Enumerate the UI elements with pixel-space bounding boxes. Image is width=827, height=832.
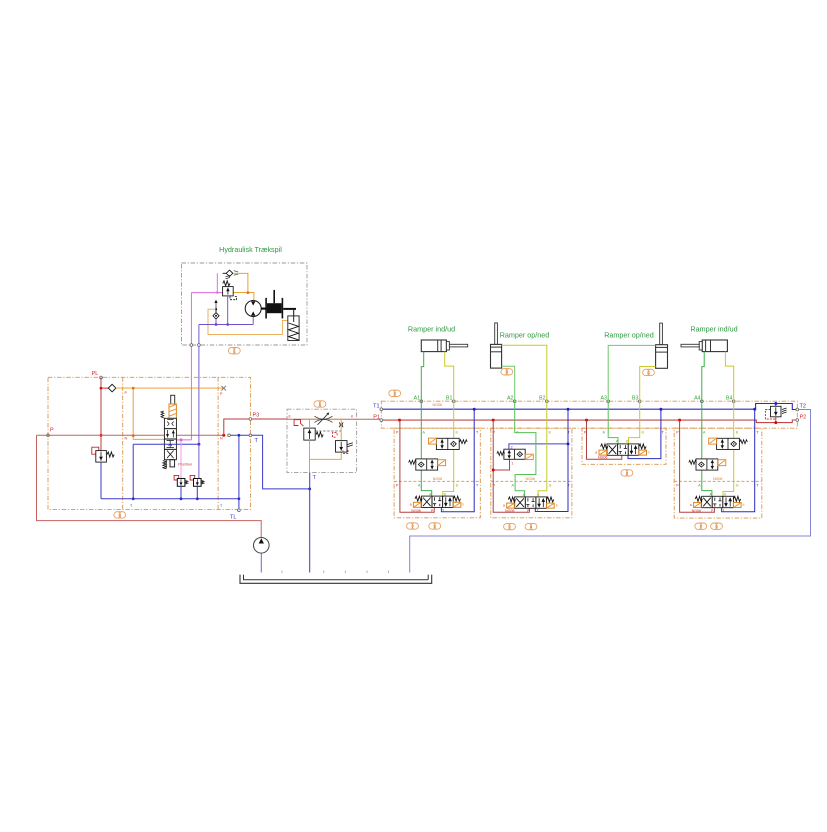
wire magenta position pilot	[180, 440, 182, 479]
wire red pump pressure line	[37, 435, 262, 537]
wire blue T return	[535, 409, 568, 511]
wire green cyl4 A	[702, 352, 704, 402]
relief valve RV2	[92, 447, 114, 462]
node P3	[249, 418, 252, 421]
oval labels 9 4	[504, 523, 516, 529]
svg-text:b: b	[556, 503, 558, 507]
main valve 4/3	[599, 444, 647, 455]
wire purple to pilot valve 2	[198, 444, 200, 478]
junction T bus group3	[659, 408, 662, 411]
svg-text:2: 2	[233, 349, 236, 354]
junction blue T to tank	[308, 488, 311, 491]
brake spring housing	[288, 309, 299, 341]
wire red P through	[287, 418, 381, 420]
junction blue drain main valve	[132, 497, 135, 500]
group box	[674, 428, 762, 518]
oval label 3	[389, 390, 401, 396]
pilot valve PV1	[174, 475, 188, 486]
junction red PL / P line	[100, 434, 103, 437]
winch enclosure box	[182, 263, 308, 345]
svg-text:a: a	[690, 503, 692, 507]
junction red PL / check valve	[100, 387, 103, 390]
check valve CV1 top	[223, 270, 239, 276]
wire blue main return to tank	[410, 410, 811, 573]
wire yellow B	[723, 401, 734, 496]
wire blue middle T to tank	[309, 473, 311, 573]
svg-text:7: 7	[700, 524, 703, 529]
node PL	[100, 376, 103, 379]
junction purple pilot	[197, 443, 200, 446]
svg-text:4: 4	[626, 471, 629, 476]
wire green cyl3 A	[608, 345, 655, 401]
wire red P feed	[400, 420, 434, 512]
svg-text:3: 3	[393, 391, 396, 396]
node T junction	[228, 434, 231, 437]
cylinder 1 Ramper ind/ud	[408, 325, 468, 352]
svg-text:TL: TL	[230, 515, 236, 521]
wire yellow cyl4 B	[725, 352, 733, 402]
svg-text:8: 8	[506, 370, 509, 375]
junction blue drain PV1	[180, 497, 183, 500]
svg-text:A3: A3	[601, 395, 607, 401]
port labels	[584, 431, 665, 444]
cylinder 2 Ramper op/ned	[491, 323, 550, 368]
wire blue T from valve	[133, 444, 199, 499]
wire blue T1-T2	[381, 404, 797, 410]
junction P bus group3	[585, 419, 588, 422]
pump P1	[253, 538, 269, 554]
wire orange inside	[300, 418, 345, 420]
pilot valve PV2	[190, 475, 204, 486]
svg-text:A2: A2	[507, 395, 513, 401]
wire purple RV1 drain	[227, 296, 229, 325]
svg-text:Ramper ind/ud: Ramper ind/ud	[690, 325, 737, 334]
junction P bus group2	[492, 419, 495, 422]
oval labels 7 5	[407, 523, 419, 529]
wire green cyl2 A	[502, 366, 515, 401]
wire blue pump suction	[260, 553, 262, 572]
svg-text:Position: Position	[178, 461, 192, 466]
oval label 8 cyl3	[643, 369, 655, 375]
node TL	[238, 509, 241, 512]
svg-text:B3: B3	[632, 395, 638, 401]
svg-text:a: a	[595, 450, 597, 454]
pilot valve lower (A line)	[409, 459, 446, 470]
oval label 6	[114, 512, 126, 518]
wire yellow cyl2 B	[502, 345, 547, 401]
oval label 4	[621, 470, 633, 476]
port labels	[396, 431, 479, 488]
tank	[240, 571, 432, 584]
svg-text:5: 5	[433, 524, 436, 529]
flow control valve symbol	[315, 413, 333, 425]
junction orange pilot top	[132, 387, 135, 390]
wire yellow cyl1 B	[445, 352, 454, 402]
wire red P feed	[680, 420, 715, 512]
svg-text:Ramper op/ned: Ramper op/ned	[500, 330, 550, 339]
svg-text:B2: B2	[539, 395, 545, 401]
relief valve RV1 (winch)	[223, 275, 237, 299]
wire yellow B	[629, 401, 640, 444]
svg-text:P2: P2	[800, 415, 807, 421]
cylinder 3 Ramper op/ned	[604, 323, 667, 368]
svg-text:PL: PL	[92, 371, 99, 377]
svg-text:NG06: NG06	[411, 509, 420, 513]
svg-text:1: 1	[319, 402, 322, 407]
node P	[47, 434, 50, 437]
svg-text:NG06: NG06	[433, 403, 442, 407]
wire purple motor return	[199, 317, 253, 445]
junction orange pilot bottom	[132, 434, 135, 437]
wire yellow B	[443, 401, 454, 496]
wire orange brake pilot	[208, 309, 288, 334]
main valve 4/3	[507, 497, 555, 508]
svg-text:2: 2	[511, 445, 513, 449]
svg-text:Hydraulisk Trækspil: Hydraulisk Trækspil	[219, 245, 282, 254]
svg-text:NG06: NG06	[505, 509, 514, 513]
svg-text:Ramper op/ned: Ramper op/ned	[604, 330, 654, 339]
wire red P supply	[37, 434, 224, 436]
node winch box bottom left	[190, 344, 193, 347]
wire green cyl1 A	[421, 352, 423, 402]
svg-text:1: 1	[511, 462, 513, 466]
svg-text:NG06: NG06	[433, 477, 442, 481]
oval labels 7 5	[695, 523, 707, 529]
main proportional valve (vertical)	[161, 395, 176, 469]
cylinder 4 Ramper ind/ud	[681, 325, 738, 352]
junction T bus group4	[753, 408, 756, 411]
wire orange pilot supply	[116, 388, 224, 439]
svg-text:NG06: NG06	[598, 456, 607, 460]
pressure reducing valve	[294, 420, 341, 440]
svg-text:P3: P3	[253, 413, 260, 419]
oval label 8 cyl2	[501, 369, 513, 375]
wire orange CV1 to motor	[233, 273, 254, 300]
junction blue drain PV2	[196, 497, 199, 500]
junction purple dots	[215, 323, 218, 326]
junction magenta	[216, 291, 218, 293]
junction T bus group1	[473, 408, 476, 411]
svg-text:B1: B1	[446, 395, 452, 401]
pilot valve upper (B line)	[709, 438, 748, 449]
hydraulic motor M1	[245, 301, 261, 317]
svg-text:P1: P1	[373, 414, 380, 420]
svg-text:8: 8	[647, 370, 650, 375]
check valve CV3	[101, 384, 116, 392]
node T1	[380, 408, 383, 411]
svg-text:9: 9	[508, 525, 511, 530]
node P1	[380, 419, 383, 422]
wire green A	[421, 401, 431, 496]
svg-text:5: 5	[715, 524, 718, 529]
node T on box edge	[249, 434, 252, 437]
pilot arrow (shuttle)	[214, 300, 217, 311]
wire green A	[608, 401, 618, 444]
node T2	[796, 408, 799, 411]
node winch box bottom right	[198, 344, 201, 347]
orifice on pilot branch	[339, 422, 343, 427]
svg-text:7: 7	[411, 524, 414, 529]
svg-text:NG06: NG06	[526, 477, 535, 481]
middle box	[287, 409, 357, 472]
main valve 4/3	[413, 496, 461, 507]
relief valve middle	[333, 433, 353, 454]
wire magenta pilot (winch to valve section)	[176, 273, 222, 440]
port labels	[493, 431, 571, 488]
svg-text:4: 4	[530, 525, 533, 530]
wire blue pilot	[509, 444, 568, 449]
main valve 4/3	[694, 496, 742, 507]
wire blue RV2 drain	[100, 462, 102, 499]
bus box	[381, 401, 797, 428]
svg-text:B4: B4	[726, 395, 732, 401]
system relief valve at right end	[765, 402, 786, 424]
svg-text:Ramper ind/ud: Ramper ind/ud	[408, 325, 455, 334]
plugged port X	[221, 386, 226, 391]
junction T bus group2	[567, 408, 570, 411]
oval label 2	[228, 348, 240, 354]
svg-text:T2: T2	[800, 404, 806, 410]
A/B port nodes and labels	[414, 395, 733, 401]
port labels	[676, 431, 759, 488]
svg-text:T: T	[313, 475, 316, 481]
wire blue TL drop	[238, 499, 240, 509]
group box	[491, 428, 572, 518]
junction P bus group1	[398, 419, 401, 422]
wire red P feed	[493, 420, 529, 512]
junction orange	[247, 291, 250, 294]
svg-text:NG06: NG06	[692, 509, 701, 513]
wire blue T return	[722, 409, 755, 512]
group box	[394, 428, 480, 518]
wire blue T return	[628, 409, 661, 458]
wire red P1-P2	[381, 420, 797, 423]
junction blue TL riser	[238, 497, 241, 500]
wire orange piping	[310, 419, 342, 472]
pilot valve (lowering brake)	[497, 449, 533, 459]
group box	[582, 428, 666, 464]
svg-text:a: a	[410, 503, 412, 507]
wire yellow B	[538, 401, 547, 497]
wire green A	[515, 401, 536, 497]
pilot valve lower (A line)	[689, 459, 726, 470]
wire red PL riser	[100, 378, 102, 451]
wire blue drain collector	[101, 435, 310, 499]
wire green A	[702, 401, 712, 496]
oval label 1	[314, 401, 326, 407]
svg-text:T1: T1	[373, 404, 379, 410]
svg-text:A1: A1	[414, 395, 420, 401]
junction P bus group4	[678, 419, 681, 422]
svg-text:P: P	[50, 428, 54, 434]
left manifold box	[48, 377, 250, 509]
svg-text:6: 6	[119, 513, 122, 518]
check valve CV2	[213, 309, 219, 324]
wire red to P3	[224, 419, 287, 435]
pilot valve upper (B line)	[429, 438, 468, 449]
svg-text:b: b	[648, 450, 650, 454]
winch drum / brake	[261, 290, 296, 319]
svg-text:b: b	[462, 503, 464, 507]
node P2	[796, 419, 799, 422]
svg-text:N: N	[220, 436, 223, 440]
svg-text:NG06: NG06	[713, 477, 722, 481]
svg-text:b: b	[743, 503, 745, 507]
junction blue T line	[238, 434, 241, 437]
svg-text:N: N	[125, 437, 128, 441]
svg-text:a: a	[503, 503, 505, 507]
wire blue T return	[441, 409, 474, 512]
wire yellow cyl3 B	[640, 367, 656, 402]
svg-text:A4: A4	[694, 395, 700, 401]
wire red P feed	[587, 420, 622, 459]
